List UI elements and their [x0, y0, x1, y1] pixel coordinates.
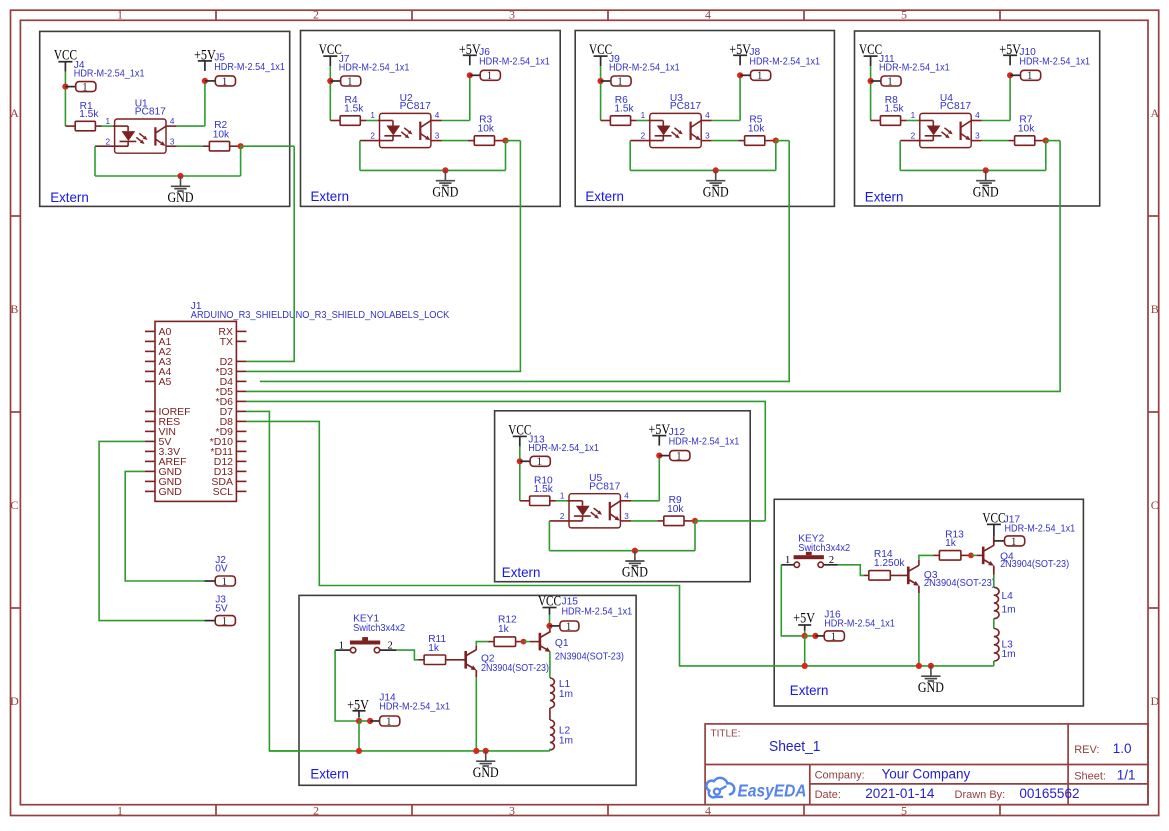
svg-text:A5: A5	[159, 376, 172, 388]
svg-text:3: 3	[705, 132, 710, 141]
svg-text:SCL: SCL	[213, 486, 234, 498]
svg-text:1: 1	[105, 117, 110, 126]
svg-text:1: 1	[566, 621, 572, 633]
svg-text:Extern: Extern	[790, 682, 829, 698]
svg-text:Extern: Extern	[50, 189, 89, 205]
svg-text:00165562: 00165562	[1019, 786, 1079, 801]
svg-text:4: 4	[435, 111, 440, 120]
svg-text:ARDUINO_R3_SHIELDUNO_R3_SHIELD: ARDUINO_R3_SHIELDUNO_R3_SHIELD_NOLABELS_…	[191, 310, 450, 321]
svg-text:3: 3	[170, 137, 175, 146]
svg-text:1: 1	[339, 640, 344, 651]
svg-text:2: 2	[560, 512, 565, 521]
svg-text:GND: GND	[473, 765, 499, 781]
svg-text:1: 1	[757, 70, 763, 82]
svg-text:Your Company: Your Company	[882, 767, 971, 782]
svg-text:1: 1	[487, 70, 493, 82]
svg-text:HDR-M-2.54_1x1: HDR-M-2.54_1x1	[74, 68, 145, 79]
svg-text:1.5k: 1.5k	[534, 484, 554, 495]
svg-text:PC817: PC817	[135, 107, 166, 118]
svg-text:A: A	[10, 106, 19, 120]
svg-text:10k: 10k	[478, 124, 495, 135]
svg-text:1.250k: 1.250k	[874, 558, 905, 569]
svg-text:Sheet_1: Sheet_1	[769, 738, 821, 755]
svg-text:0V: 0V	[215, 564, 228, 575]
svg-text:HDR-M-2.54_1x1: HDR-M-2.54_1x1	[214, 62, 285, 73]
svg-text:10k: 10k	[667, 504, 684, 515]
svg-text:4: 4	[170, 117, 175, 126]
svg-text:2N3904(SOT-23): 2N3904(SOT-23)	[555, 652, 624, 663]
svg-text:GND: GND	[973, 184, 999, 200]
svg-text:GND: GND	[622, 565, 648, 581]
svg-text:Extern: Extern	[865, 189, 904, 205]
svg-text:Switch3x4x2: Switch3x4x2	[798, 543, 850, 554]
svg-text:1: 1	[222, 576, 228, 588]
svg-text:1m: 1m	[559, 689, 573, 700]
svg-text:3: 3	[624, 512, 629, 521]
svg-text:1: 1	[676, 451, 682, 463]
svg-text:2: 2	[911, 132, 916, 141]
svg-text:2N3904(SOT-23): 2N3904(SOT-23)	[924, 578, 995, 589]
svg-text:GND: GND	[918, 680, 944, 696]
svg-text:Extern: Extern	[502, 564, 541, 580]
svg-text:Drawn By:: Drawn By:	[955, 789, 1006, 801]
svg-text:HDR-M-2.54_1x1: HDR-M-2.54_1x1	[824, 618, 895, 629]
svg-text:1: 1	[617, 76, 623, 88]
svg-text:B: B	[1151, 302, 1159, 316]
svg-text:1.5k: 1.5k	[614, 104, 634, 115]
svg-text:1.5k: 1.5k	[884, 104, 904, 115]
svg-text:Q1: Q1	[555, 638, 569, 649]
svg-text:1: 1	[117, 803, 123, 817]
svg-text:HDR-M-2.54_1x1: HDR-M-2.54_1x1	[379, 702, 450, 713]
svg-text:EasyEDA: EasyEDA	[738, 781, 807, 801]
svg-text:10k: 10k	[1018, 124, 1035, 135]
svg-text:GND: GND	[703, 184, 729, 200]
svg-text:5: 5	[901, 8, 907, 22]
svg-text:1: 1	[887, 76, 893, 88]
svg-text:GND: GND	[432, 184, 458, 200]
svg-text:1: 1	[370, 111, 375, 120]
svg-text:1m: 1m	[1002, 649, 1016, 660]
svg-text:1: 1	[911, 111, 916, 120]
svg-text:HDR-M-2.54_1x1: HDR-M-2.54_1x1	[879, 63, 950, 74]
svg-text:2: 2	[105, 137, 110, 146]
svg-text:HDR-M-2.54_1x1: HDR-M-2.54_1x1	[749, 56, 820, 67]
svg-text:PC817: PC817	[670, 101, 701, 112]
svg-text:1: 1	[222, 616, 228, 628]
svg-text:PC817: PC817	[589, 481, 620, 492]
svg-text:4: 4	[705, 111, 710, 120]
svg-text:HDR-M-2.54_1x1: HDR-M-2.54_1x1	[1005, 524, 1076, 535]
svg-text:1m: 1m	[559, 735, 573, 746]
svg-text:1.5k: 1.5k	[79, 109, 99, 120]
svg-text:2: 2	[313, 803, 319, 817]
svg-text:1: 1	[560, 492, 565, 501]
svg-text:1: 1	[831, 631, 837, 643]
svg-text:Sheet:: Sheet:	[1074, 771, 1106, 783]
svg-text:REV:: REV:	[1074, 744, 1099, 756]
svg-text:10k: 10k	[748, 124, 765, 135]
svg-text:HDR-M-2.54_1x1: HDR-M-2.54_1x1	[479, 56, 550, 67]
svg-text:TITLE:: TITLE:	[711, 729, 741, 740]
svg-text:2021-01-14: 2021-01-14	[865, 786, 935, 801]
svg-text:+5V: +5V	[793, 610, 815, 626]
svg-text:2: 2	[313, 8, 319, 22]
svg-text:3: 3	[509, 803, 515, 817]
svg-text:1m: 1m	[1002, 605, 1016, 616]
svg-text:1: 1	[347, 76, 353, 88]
svg-text:1: 1	[537, 456, 543, 468]
svg-text:Company:: Company:	[815, 770, 865, 782]
svg-text:1: 1	[117, 8, 123, 22]
svg-text:D: D	[1150, 694, 1159, 708]
svg-text:1k: 1k	[498, 624, 510, 635]
svg-text:1: 1	[785, 555, 790, 566]
svg-text:3: 3	[975, 132, 980, 141]
svg-text:1: 1	[1011, 536, 1017, 548]
svg-text:2N3904(SOT-23): 2N3904(SOT-23)	[1000, 559, 1069, 570]
svg-text:PC817: PC817	[940, 101, 971, 112]
svg-text:1k: 1k	[945, 538, 957, 549]
svg-text:1: 1	[82, 82, 88, 94]
svg-text:Extern: Extern	[311, 188, 350, 204]
svg-text:PC817: PC817	[400, 101, 431, 112]
svg-text:2: 2	[370, 132, 375, 141]
svg-text:TX: TX	[220, 336, 233, 348]
svg-text:1/1: 1/1	[1117, 768, 1136, 783]
svg-text:L4: L4	[1002, 591, 1014, 602]
svg-text:4: 4	[624, 492, 629, 501]
svg-text:D: D	[10, 694, 19, 708]
svg-text:C: C	[10, 498, 18, 512]
svg-text:C: C	[1151, 498, 1159, 512]
svg-text:HDR-M-2.54_1x1: HDR-M-2.54_1x1	[339, 63, 410, 74]
svg-text:Extern: Extern	[585, 188, 624, 204]
svg-text:1.5k: 1.5k	[344, 104, 364, 115]
svg-text:Switch3x4x2: Switch3x4x2	[353, 623, 405, 634]
svg-text:5V: 5V	[215, 603, 228, 614]
svg-text:4: 4	[705, 8, 711, 22]
svg-text:A: A	[1150, 106, 1159, 120]
svg-text:1: 1	[386, 716, 392, 728]
svg-text:GND: GND	[159, 486, 183, 498]
svg-text:HDR-M-2.54_1x1: HDR-M-2.54_1x1	[528, 443, 599, 454]
svg-text:4: 4	[975, 111, 980, 120]
svg-text:2: 2	[387, 640, 392, 651]
svg-text:1k: 1k	[428, 643, 440, 654]
svg-text:10k: 10k	[213, 129, 230, 140]
svg-text:HDR-M-2.54_1x1: HDR-M-2.54_1x1	[669, 437, 740, 448]
svg-text:3: 3	[435, 132, 440, 141]
svg-text:HDR-M-2.54_1x1: HDR-M-2.54_1x1	[609, 63, 680, 74]
svg-text:B: B	[10, 302, 18, 316]
svg-text:2N3904(SOT-23): 2N3904(SOT-23)	[481, 663, 549, 674]
svg-text:1: 1	[641, 111, 646, 120]
svg-text:2: 2	[829, 555, 834, 566]
svg-text:Date:: Date:	[815, 789, 841, 801]
svg-text:1: 1	[222, 76, 228, 88]
svg-text:1: 1	[1027, 70, 1033, 82]
svg-text:GND: GND	[168, 190, 194, 206]
svg-text:2: 2	[641, 132, 646, 141]
svg-text:HDR-M-2.54_1x1: HDR-M-2.54_1x1	[1019, 56, 1090, 67]
svg-text:Extern: Extern	[310, 765, 349, 781]
svg-text:1.0: 1.0	[1113, 741, 1132, 756]
svg-text:3: 3	[509, 8, 515, 22]
svg-text:HDR-M-2.54_1x1: HDR-M-2.54_1x1	[562, 606, 633, 617]
